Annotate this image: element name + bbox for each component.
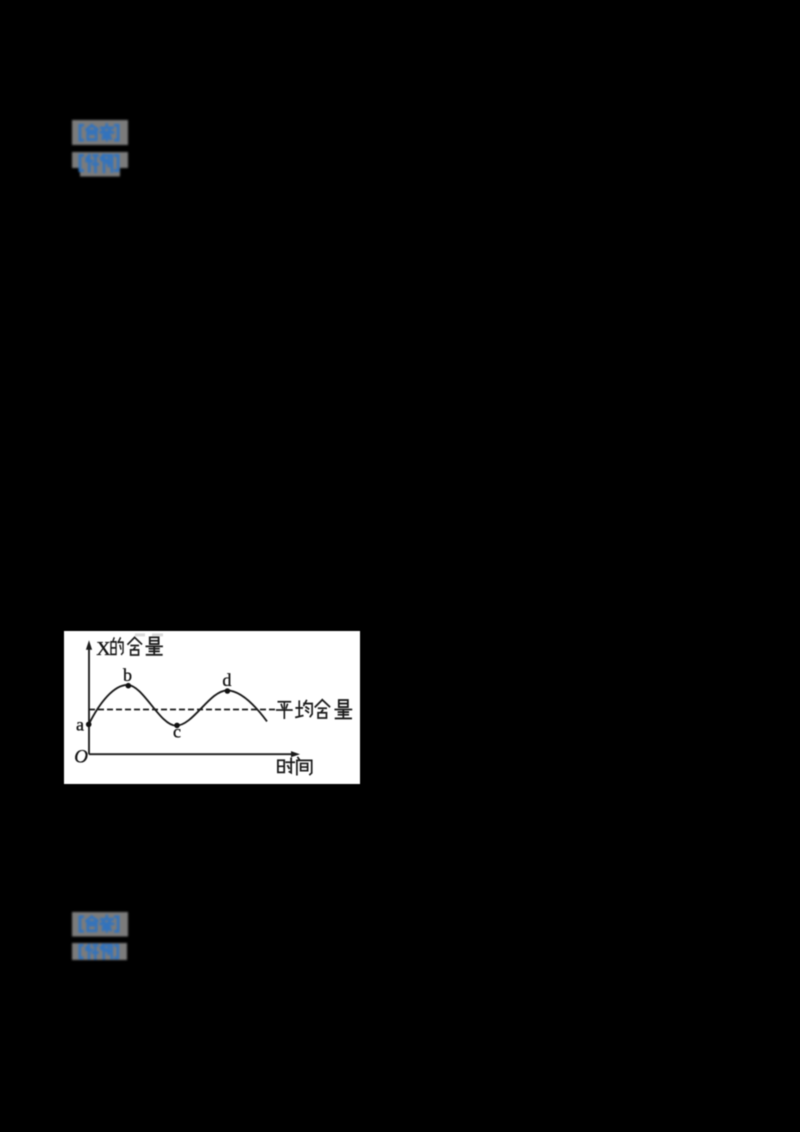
badge answer-1 (blue 【答案】 on gray highlight): [72, 120, 128, 145]
glyph 间: [297, 758, 312, 775]
svg-text:a: a: [76, 715, 84, 735]
curve: [89, 685, 267, 726]
glyph 含 (second): [315, 700, 329, 718]
y-axis: [88, 648, 90, 754]
letter labels: [74, 638, 231, 768]
badge analysis-1 (blue 【解析】 on gray highlight, bottom-clipped): [72, 152, 128, 177]
glyph 的: [111, 638, 123, 654]
glyph 平: [277, 702, 292, 718]
y-axis arrowhead: [86, 640, 92, 650]
svg-text:O: O: [74, 747, 88, 768]
svg-text:X: X: [96, 638, 111, 660]
badge analysis-2 (blue 【解析】 on gray highlight): [72, 943, 127, 960]
white chart panel: [64, 631, 360, 784]
data dots a b c d: [86, 722, 92, 728]
dashed average line: [89, 709, 275, 711]
x-axis arrowhead: [291, 751, 300, 757]
x-axis: [89, 753, 292, 755]
glyph 时: [278, 758, 294, 772]
glyph 含: [128, 637, 141, 655]
glyph 均: [296, 701, 312, 718]
badge answer-2 (blue 【答案】 on gray highlight): [72, 912, 128, 937]
glyph 量: [146, 637, 162, 654]
glyph 量 (second): [335, 700, 351, 718]
svg-text:d: d: [222, 670, 231, 690]
svg-text:b: b: [123, 665, 132, 685]
faint smudges above axis label: [135, 633, 145, 636]
svg-text:c: c: [173, 722, 181, 742]
